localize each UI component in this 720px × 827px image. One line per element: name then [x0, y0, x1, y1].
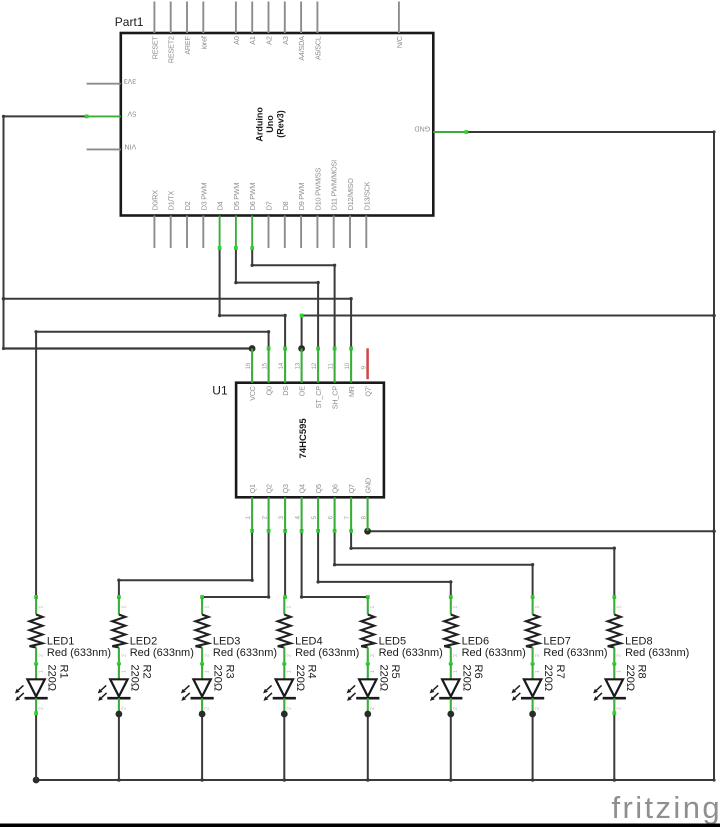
Part1 left pins 3V3 5V VIN: [87, 77, 137, 152]
wire bottom GND bus: [36, 778, 714, 782]
wire U1 Q7 pin 7 to LED8: [349, 529, 616, 599]
svg-text:D3 PWM: D3 PWM: [199, 183, 208, 211]
svg-text:U1: U1: [212, 384, 228, 398]
svg-text:2: 2: [287, 707, 293, 710]
Part1 reference label: [115, 15, 144, 29]
svg-text:SH_CP: SH_CP: [331, 386, 340, 409]
junction LED7 cathode: [529, 711, 536, 718]
wire D5 to U1 ST_CP pin 12: [234, 246, 320, 350]
svg-text:GND: GND: [415, 125, 431, 134]
svg-text:OE: OE: [298, 386, 307, 396]
svg-text:VCC: VCC: [248, 386, 257, 401]
svg-text:A2: A2: [265, 36, 274, 45]
label LED7: [543, 635, 607, 659]
resistor R7 220 ohm: [526, 597, 541, 664]
svg-text:A1: A1: [248, 36, 257, 45]
Part1 bottom pins D0-D13: [150, 160, 371, 248]
svg-text:Part1: Part1: [115, 15, 144, 29]
IC Part1 Arduino Uno (Rev3): [121, 33, 434, 216]
svg-text:fritzing: fritzing: [612, 790, 720, 825]
svg-text:A5/SCL: A5/SCL: [313, 36, 322, 60]
resistor R2 220 ohm: [112, 597, 127, 664]
svg-text:RESET2: RESET2: [167, 36, 176, 63]
svg-text:(Rev3): (Rev3): [275, 110, 285, 138]
label R3 220 ohm: [212, 665, 236, 692]
svg-text:15: 15: [261, 362, 268, 369]
junction bus at LED1: [33, 777, 40, 784]
svg-text:DS: DS: [281, 386, 290, 396]
label R6 220 ohm: [460, 665, 484, 692]
svg-text:Q0: Q0: [265, 386, 274, 395]
svg-text:2: 2: [535, 654, 541, 657]
wire D4 to U1 DS pin 14: [218, 246, 287, 350]
junction LED4 cathode: [281, 711, 288, 718]
resistor R3 220 ohm: [196, 597, 211, 664]
svg-text:D1/TX: D1/TX: [167, 191, 176, 211]
wire U1 OE pin 13 to GND rail: [300, 314, 714, 349]
svg-text:D9 PWM: D9 PWM: [297, 183, 306, 211]
resistor R5 220 ohm: [361, 597, 376, 664]
svg-text:2: 2: [205, 707, 211, 710]
label R5 220 ohm: [377, 665, 401, 692]
Part1 value label Arduino Uno (Rev3): [255, 107, 286, 142]
svg-text:1: 1: [535, 606, 541, 609]
svg-text:2: 2: [453, 654, 459, 657]
junction LED6 cathode: [447, 711, 454, 718]
fritzing watermark: [612, 790, 720, 825]
U1 top pins VCC Q0 DS OE ST_CP SH_CP MR: [245, 349, 373, 410]
resistor R1 220 ohm: [30, 597, 45, 664]
node R2-LED2: [117, 662, 121, 666]
svg-text:11: 11: [327, 363, 334, 370]
svg-text:Red (633nm): Red (633nm): [295, 647, 359, 659]
label R4 220 ohm: [294, 665, 318, 692]
junction LED3 cathode: [199, 711, 206, 718]
svg-text:LED6: LED6: [462, 635, 490, 647]
svg-text:74HC595: 74HC595: [298, 418, 309, 459]
svg-text:Q4: Q4: [298, 484, 307, 493]
svg-text:MR: MR: [347, 386, 356, 397]
label LED5: [379, 635, 443, 659]
svg-text:1: 1: [370, 670, 376, 673]
svg-text:D0/RX: D0/RX: [150, 190, 159, 211]
label R2 220 ohm: [128, 665, 152, 692]
svg-text:1: 1: [287, 670, 293, 673]
svg-text:LED4: LED4: [295, 635, 323, 647]
node R5-LED5: [366, 662, 370, 666]
svg-text:Q7: Q7: [347, 484, 356, 493]
Part1 5V pin (connected): [87, 110, 137, 119]
node R7-LED7: [530, 662, 534, 666]
svg-text:RESET: RESET: [150, 35, 159, 59]
LED LED8 Red (633nm): [593, 664, 626, 713]
svg-text:Uno: Uno: [265, 115, 275, 133]
svg-text:1: 1: [39, 606, 45, 609]
IC U1 74HC595: [236, 383, 384, 498]
svg-text:5V: 5V: [127, 110, 136, 119]
svg-text:Red (633nm): Red (633nm): [213, 647, 277, 659]
Part1 right pin GND (connected): [415, 125, 467, 134]
svg-text:10: 10: [344, 362, 351, 369]
svg-text:D11 PWM/MOSI: D11 PWM/MOSI: [330, 160, 339, 210]
wire U1 Q5 pin 5 to LED6: [316, 529, 452, 599]
wire LED4 cathode to GND bus: [283, 713, 285, 780]
svg-text:D12/MISO: D12/MISO: [346, 178, 355, 211]
label LED1: [47, 635, 111, 659]
svg-text:2: 2: [39, 654, 45, 657]
LED LED2 Red (633nm): [98, 664, 131, 713]
svg-text:D4: D4: [216, 201, 225, 210]
svg-text:2: 2: [287, 654, 293, 657]
svg-text:GND: GND: [364, 478, 373, 493]
svg-text:D10 PWM/SS: D10 PWM/SS: [313, 168, 322, 211]
svg-text:LED8: LED8: [625, 635, 653, 647]
LED LED3 Red (633nm): [181, 664, 214, 713]
svg-text:D6 PWM: D6 PWM: [248, 183, 257, 211]
label LED4: [295, 635, 359, 659]
label LED8: [625, 635, 689, 659]
label LED3: [213, 635, 277, 659]
svg-text:Red (633nm): Red (633nm): [47, 647, 111, 659]
junction at U1 OE: [298, 345, 305, 352]
svg-text:D7: D7: [265, 201, 274, 210]
svg-text:Red (633nm): Red (633nm): [379, 647, 443, 659]
wire U1 Q0 pin 15 to LED1: [34, 330, 270, 599]
junction at U1 VCC: [249, 345, 256, 352]
wire Arduino GND to right rail: [464, 130, 715, 134]
svg-text:1: 1: [617, 670, 623, 673]
svg-text:1: 1: [370, 606, 376, 609]
svg-text:Q6: Q6: [331, 484, 340, 493]
LED LED4 Red (633nm): [263, 664, 296, 713]
wire U1 GND pin 8 to rail: [368, 530, 714, 532]
svg-text:LED5: LED5: [379, 635, 407, 647]
svg-text:LED2: LED2: [130, 635, 158, 647]
wire U1 Q3 pin 3 to LED4: [283, 529, 287, 599]
svg-text:AREF: AREF: [183, 35, 192, 54]
svg-text:Arduino: Arduino: [255, 107, 265, 142]
svg-text:1: 1: [287, 606, 293, 609]
svg-text:Q1: Q1: [248, 484, 257, 493]
wire LED3 cathode to GND bus: [201, 713, 203, 780]
svg-text:N/C: N/C: [395, 36, 404, 48]
label LED6: [462, 635, 526, 659]
wire U1 Q1 pin 1 to LED2: [117, 529, 254, 599]
wire LED6 cathode to GND bus: [450, 713, 452, 780]
svg-text:LED1: LED1: [47, 635, 75, 647]
svg-text:Red (633nm): Red (633nm): [130, 647, 194, 659]
Part1 top pins RESET RESET2 AREF ioref A0-A5 N/C: [150, 2, 404, 64]
svg-text:ioref: ioref: [199, 36, 208, 49]
svg-text:VIN: VIN: [125, 143, 137, 152]
svg-text:1: 1: [617, 606, 623, 609]
wire U1 Q4 pin 4 to LED5: [300, 529, 370, 599]
svg-text:12: 12: [311, 362, 318, 369]
resistor R4 220 ohm: [278, 597, 293, 664]
U1 value label 74HC595: [298, 418, 309, 459]
svg-text:2: 2: [370, 707, 376, 710]
svg-text:1: 1: [121, 606, 127, 609]
wire LED1 cathode to GND bus: [34, 711, 38, 780]
svg-text:2: 2: [535, 707, 541, 710]
svg-text:2: 2: [453, 707, 459, 710]
svg-text:D13/SCK: D13/SCK: [362, 181, 371, 210]
wire D6 to U1 SH_CP pin 11: [250, 246, 336, 350]
svg-text:2: 2: [617, 654, 623, 657]
svg-text:A3: A3: [281, 36, 290, 45]
svg-text:16: 16: [245, 362, 252, 369]
svg-text:Red (633nm): Red (633nm): [462, 647, 526, 659]
node R3-LED3: [200, 662, 204, 666]
junction LED2 cathode: [116, 711, 123, 718]
svg-text:D5 PWM: D5 PWM: [232, 183, 241, 211]
svg-text:1: 1: [535, 670, 541, 673]
svg-text:1: 1: [453, 670, 459, 673]
svg-text:1: 1: [205, 606, 211, 609]
wire 5V pin to left rail: [2, 115, 89, 119]
junction LED5 cathode: [364, 711, 371, 718]
resistor R8 220 ohm: [608, 597, 623, 664]
U1 pin 9 Q7' unrouted (red): [366, 348, 369, 379]
wire LED5 cathode to GND bus: [367, 713, 369, 780]
svg-text:Red (633nm): Red (633nm): [625, 647, 689, 659]
svg-text:2: 2: [617, 707, 623, 710]
resistor R6 220 ohm: [444, 597, 459, 664]
node R1-LED1: [34, 662, 38, 666]
wire U1 Q6 pin 6 to LED7: [333, 529, 535, 599]
svg-text:LED7: LED7: [543, 635, 571, 647]
U1 bottom pins Q1-Q7 GND: [245, 478, 373, 531]
svg-text:Q7': Q7': [364, 385, 373, 396]
label R7 220 ohm: [542, 665, 566, 692]
svg-text:2: 2: [205, 654, 211, 657]
wire left 5V rail vertical: [2, 116, 6, 350]
label R8 220 ohm: [624, 665, 648, 692]
wire LED2 cathode to GND bus: [118, 713, 120, 780]
svg-text:13: 13: [294, 362, 301, 369]
U1 reference label: [212, 384, 228, 398]
wire LED7 cathode to GND bus: [532, 713, 534, 780]
LED LED7 Red (633nm): [511, 664, 544, 713]
LED LED5 Red (633nm): [347, 664, 380, 713]
svg-text:1: 1: [121, 670, 127, 673]
svg-text:1: 1: [453, 606, 459, 609]
svg-text:D2: D2: [183, 201, 192, 210]
svg-text:D8: D8: [281, 201, 290, 210]
LED LED1 Red (633nm): [15, 664, 48, 713]
svg-text:2: 2: [121, 654, 127, 657]
svg-text:Q5: Q5: [314, 484, 323, 493]
svg-text:14: 14: [278, 362, 285, 369]
svg-text:2: 2: [121, 707, 127, 710]
wire 5V to U1 MR pin 10: [4, 297, 354, 350]
svg-text:Red (633nm): Red (633nm): [543, 647, 607, 659]
node R6-LED6: [449, 662, 453, 666]
wire right GND rail vertical: [712, 132, 716, 782]
svg-text:2: 2: [39, 707, 45, 710]
svg-text:1: 1: [39, 670, 45, 673]
wire U1 Q2 pin 2 to LED3: [200, 529, 270, 599]
svg-text:2: 2: [370, 654, 376, 657]
svg-text:Q2: Q2: [265, 484, 274, 493]
node R4-LED4: [282, 662, 286, 666]
label R1 220 ohm: [46, 665, 70, 692]
wire LED8 cathode to GND bus: [612, 711, 616, 780]
svg-text:LED3: LED3: [213, 635, 241, 647]
svg-text:ST_CP: ST_CP: [314, 386, 323, 409]
LED LED6 Red (633nm): [430, 664, 463, 713]
wire 5V to U1 VCC pin 16: [4, 347, 253, 349]
svg-text:3V3: 3V3: [124, 77, 137, 86]
svg-text:A4/SDA: A4/SDA: [297, 36, 306, 61]
node R8-LED8: [612, 662, 616, 666]
junction at U1 GND: [364, 528, 371, 535]
svg-text:A0: A0: [232, 36, 241, 45]
bottom border bar: [0, 824, 720, 827]
svg-text:1: 1: [205, 670, 211, 673]
svg-text:Q3: Q3: [281, 484, 290, 493]
label LED2: [130, 635, 194, 659]
